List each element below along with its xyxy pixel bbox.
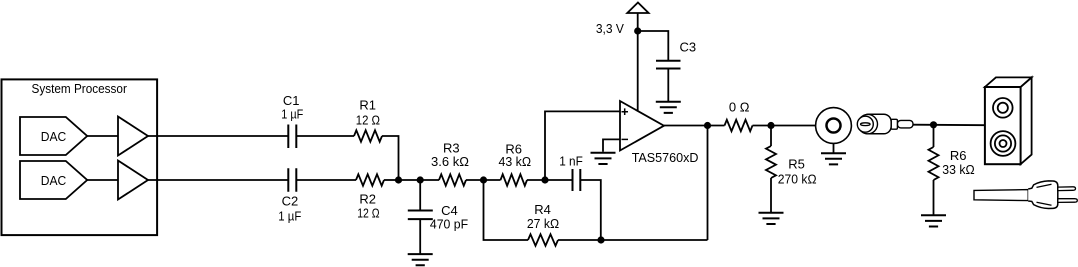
speaker tweeter [993, 98, 1013, 118]
resistor 0 ohm [725, 120, 753, 131]
wire C1 to R1 [296, 135, 354, 137]
node R6 tap [930, 121, 937, 128]
svg-text:System Processor: System Processor [31, 81, 127, 96]
wire plug to speaker [913, 124, 985, 127]
audio plug face [857, 116, 873, 132]
wire up to op-amp +input [545, 111, 620, 180]
wire R6 to ground [933, 180, 935, 215]
svg-text:1 nF: 1 nF [559, 154, 583, 169]
wire 1nF down to feedback [580, 180, 601, 240]
resistor R1 12ohm [354, 130, 382, 141]
DAC block 2 [20, 161, 87, 199]
capacitor C2 1uF [288, 168, 296, 192]
wire R3 to R6 [466, 179, 501, 181]
speaker side face [1021, 77, 1032, 164]
op-amp power stem [637, 13, 639, 111]
svg-text:C2: C2 [282, 194, 299, 209]
wire DAC1 to buffer1 [87, 135, 118, 137]
wire minus input to ground [603, 139, 620, 151]
AC power cord [974, 190, 1028, 201]
node feedback join [597, 236, 604, 243]
wire 0ohm to RCA [753, 125, 816, 127]
minus input marker [622, 138, 629, 140]
capacitor C4 470pF [408, 211, 433, 220]
svg-text:R1: R1 [359, 97, 376, 112]
node R5 tap [767, 122, 774, 129]
ground below C4 [408, 254, 433, 265]
svg-text:R6: R6 [950, 148, 967, 163]
speaker top face [985, 77, 1032, 87]
svg-text:12 Ω: 12 Ω [357, 206, 380, 221]
AC plug body [1028, 181, 1058, 209]
node feedback tap A [480, 176, 487, 183]
wire supply to C3 [638, 31, 669, 61]
audio plug slot [861, 123, 871, 126]
svg-text:TAS5760xD: TAS5760xD [632, 150, 699, 165]
wire C4 to ground [419, 219, 421, 254]
svg-text:0 Ω: 0 Ω [729, 100, 750, 115]
speaker woofer [991, 131, 1016, 156]
resistor R6 33k [929, 147, 939, 180]
capacitor C1 1uF [288, 125, 296, 149]
DAC block 1 [20, 117, 87, 155]
svg-text:R4: R4 [534, 202, 551, 217]
audio plug rim [858, 114, 877, 133]
svg-text:C3: C3 [679, 39, 696, 54]
node output [704, 122, 711, 129]
wire R1 down to junction [382, 136, 399, 180]
resistor R4 27k [528, 234, 558, 245]
audio plug body [861, 114, 891, 134]
resistor R3 3.6k [439, 174, 466, 185]
System Processor box [2, 79, 158, 235]
wire buffer1 to C1 [148, 135, 288, 137]
resistor R2 12ohm [356, 174, 384, 185]
wire junction to R3 [399, 179, 440, 181]
audio plug barrel tip [897, 120, 913, 128]
svg-text:12 Ω: 12 Ω [356, 112, 381, 127]
ground below C3 [656, 102, 681, 113]
node supply junction [634, 27, 641, 34]
ground below R5 [759, 213, 784, 224]
RCA ground stem [833, 143, 835, 153]
node C4 tap [417, 176, 424, 183]
resistor R6 43k [501, 174, 528, 185]
wire buffer2 to C2 [148, 179, 288, 181]
svg-text:DAC: DAC [41, 129, 67, 144]
RCA jack pin [827, 119, 841, 133]
wire down to R4 [484, 180, 529, 240]
svg-text:3.6 kΩ: 3.6 kΩ [431, 154, 469, 169]
plus input marker [622, 108, 629, 115]
audio plug collar [891, 119, 897, 129]
svg-text:1 µF: 1 µF [278, 209, 301, 224]
wire R6 to 1nF [527, 179, 573, 181]
op-amp U1 TAS5760xD [620, 101, 664, 151]
ground below RCA [821, 153, 846, 164]
wire op-amp output [664, 125, 725, 127]
node junction R1/R2 [395, 176, 402, 183]
wire feedback up to output [707, 126, 709, 241]
resistor R5 270k [766, 146, 776, 178]
svg-text:3,3 V: 3,3 V [596, 21, 624, 36]
AC plug body accents [1037, 184, 1052, 205]
AC plug prong 2 [1058, 199, 1078, 203]
speaker front face [985, 87, 1021, 164]
svg-text:R2: R2 [359, 191, 376, 206]
AC plug prong 1 [1058, 187, 1076, 191]
wire R2 to junction [384, 179, 399, 181]
svg-text:27 kΩ: 27 kΩ [527, 216, 560, 231]
wire R5 to ground [770, 178, 772, 213]
wire down to C4 [419, 180, 421, 211]
svg-text:470 pF: 470 pF [430, 217, 468, 232]
wire C2 to R2 [296, 179, 356, 181]
svg-text:1 µF: 1 µF [281, 107, 303, 122]
capacitor 1nF [573, 169, 581, 191]
wire down to R5 [770, 126, 772, 147]
buffer amp 2 [118, 161, 148, 200]
node +input tap B [541, 176, 548, 183]
svg-text:R5: R5 [788, 157, 805, 172]
svg-text:43 kΩ: 43 kΩ [499, 154, 532, 169]
wire DAC2 to buffer2 [87, 179, 118, 181]
ground below R6 [921, 215, 946, 226]
wire down to R6 [933, 125, 935, 147]
svg-text:C1: C1 [283, 93, 300, 108]
svg-text:33 kΩ: 33 kΩ [942, 162, 975, 177]
RCA jack outer [816, 108, 852, 144]
buffer amp 1 [118, 117, 148, 156]
ground at op-amp minus [591, 153, 616, 164]
capacitor C3 [656, 61, 681, 69]
svg-text:270 kΩ: 270 kΩ [778, 172, 817, 187]
3.3V supply arrow [627, 3, 648, 14]
svg-text:DAC: DAC [41, 173, 67, 188]
wire R4 to output leg [558, 239, 708, 241]
wire C3 to ground [667, 69, 669, 102]
